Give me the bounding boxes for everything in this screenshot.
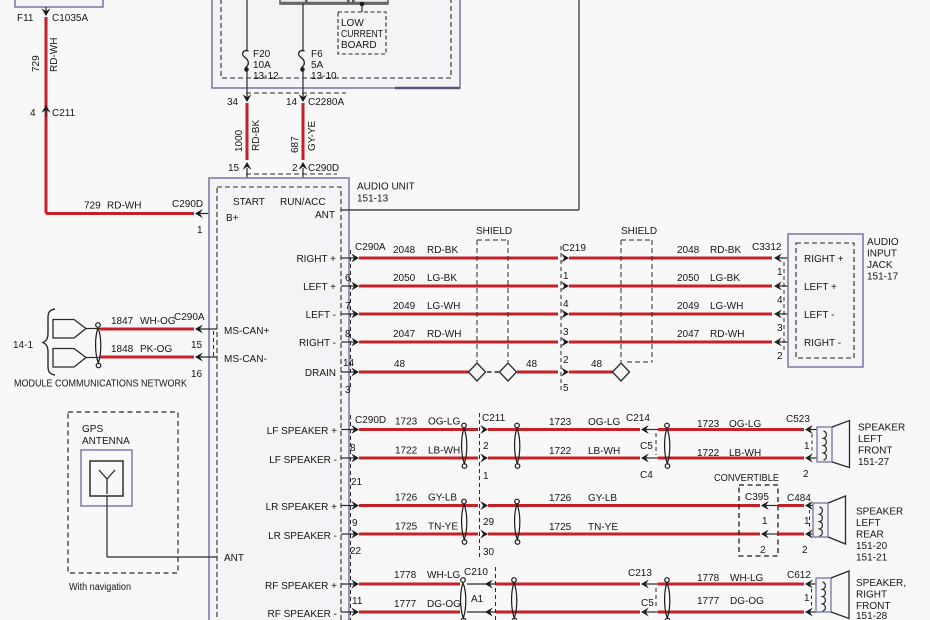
wire 1723 OG-LG (segment 2) [488,417,640,430]
svg-text:GY-YE: GY-YE [307,120,318,151]
wire 2050 LG-BK (right segment) [569,273,772,286]
svg-text:LEFT -: LEFT - [306,310,336,321]
connector C211 pin 2 [480,413,505,452]
wire 2047 RD-WH (right segment) [569,329,772,342]
svg-text:AUDIO UNIT: AUDIO UNIT [357,182,415,193]
connector C3312 dashed line [783,262,785,352]
audio input jack U2 [788,234,899,367]
shield drain junction diamonds (box 1) [469,363,517,381]
svg-text:LEFT: LEFT [856,518,880,529]
svg-text:SPEAKER: SPEAKER [856,507,903,518]
svg-text:LEFT -: LEFT - [804,310,834,321]
svg-text:2: 2 [777,351,783,362]
wire 729 RD-WH (vertical) [31,17,60,214]
svg-text:SHIELD: SHIELD [476,226,512,237]
bus bar (fuse panel) [280,0,388,4]
svg-text:151-20: 151-20 [856,541,888,552]
wire LR+ (C395 to C484) [778,504,804,507]
svg-text:RIGHT: RIGHT [856,590,887,601]
audio unit box [209,178,415,620]
wire 1778 WH-LG (segment 1) [359,570,461,584]
svg-text:34: 34 [227,97,239,108]
connector C211 pin 30 [480,530,494,559]
wire 1778 WH-LG (segment 2) [496,573,764,584]
wire 48 drain (to shield 2) [569,359,613,372]
svg-text:2048: 2048 [677,245,700,256]
svg-text:RD-BK: RD-BK [710,245,741,256]
svg-text:TN-YE: TN-YE [428,522,458,533]
svg-text:1: 1 [804,593,810,604]
svg-text:14: 14 [343,358,355,369]
wire 1726 GY-LB (segment 1) [359,493,478,506]
svg-text:2: 2 [803,469,809,480]
off-page connector (MS-CAN-) [53,349,100,368]
svg-text:2: 2 [563,355,569,366]
connector C1035A pin F11 [17,8,88,24]
connector C219 pins [561,243,586,394]
svg-text:LR SPEAKER -: LR SPEAKER - [268,531,337,542]
svg-text:C612: C612 [787,570,811,581]
svg-text:LG-WH: LG-WH [710,301,743,312]
wire 1848 PK-OG [100,344,194,357]
twisted pair symbol (LF pair, left) [462,423,467,468]
svg-text:RF SPEAKER +: RF SPEAKER + [265,581,337,592]
junction dot on bus bar [360,2,365,7]
wire 2047 RD-WH (left segment) [359,329,558,342]
svg-text:151-21: 151-21 [856,553,888,564]
svg-text:1848: 1848 [111,344,134,355]
svg-text:1000: 1000 [234,129,245,152]
antenna U1 (GPS) [81,450,132,506]
svg-text:C211: C211 [482,413,506,424]
wire ANT (to antenna mast, top right) [341,0,579,210]
twisted pair symbol (MS-CAN) [96,323,101,368]
connector C211 pin 4 [30,105,76,119]
svg-text:C3312: C3312 [752,242,782,253]
svg-text:1726: 1726 [395,493,418,504]
svg-text:1722: 1722 [697,448,720,459]
connector C290D pin 1 (B+) [172,199,217,236]
svg-text:CONVERTIBLE: CONVERTIBLE [714,473,779,484]
svg-text:RD-WH: RD-WH [107,201,141,212]
svg-text:LEFT +: LEFT + [303,282,336,293]
wire LR- (C395 to C484) [778,533,804,536]
svg-text:2050: 2050 [677,273,700,284]
svg-text:1: 1 [197,225,203,236]
speaker right front LS3 [816,571,906,620]
fuse panel box (top, cut off) [212,0,460,88]
connector C290A dashed line (right side audio rows) [350,250,352,388]
wire bus bar to low current board [361,4,363,12]
svg-text:FRONT: FRONT [858,446,892,457]
connector C290A pin 6 LEFT+ [303,273,359,293]
svg-text:4: 4 [777,295,783,306]
svg-text:15: 15 [228,163,240,174]
svg-text:29: 29 [483,517,495,528]
svg-text:C290D: C290D [355,415,386,426]
speaker left front LS1 [817,421,905,469]
svg-text:RUN/ACC: RUN/ACC [280,197,326,208]
connector C290D pin 22 LR SPEAKER - [268,530,361,558]
svg-text:48: 48 [591,359,603,370]
svg-text:1722: 1722 [395,446,418,457]
wire 2049 LG-WH (left segment) [359,301,558,314]
svg-text:C484: C484 [787,493,811,504]
wire 1722 LB-WH (segment 2) [488,446,640,458]
svg-text:6: 6 [345,273,351,284]
connector C214 pin C4 [640,454,658,482]
svg-text:1: 1 [483,471,489,482]
svg-text:14: 14 [286,97,298,108]
svg-text:729: 729 [31,55,42,72]
wire 1722 LB-WH (segment 1) [359,446,478,459]
svg-text:LG-WH: LG-WH [427,301,460,312]
wire 1000 RD-BK [234,103,262,160]
wire 48 drain (mid segment) [517,359,558,372]
svg-text:2: 2 [760,545,766,556]
shield drain junction diamond (box 2) [613,363,630,381]
svg-text:1: 1 [804,441,810,452]
svg-text:LEFT: LEFT [858,434,882,445]
twisted pair symbol (LF pair, mid) [515,423,520,468]
svg-text:11: 11 [352,596,363,607]
svg-text:RIGHT +: RIGHT + [804,254,844,265]
svg-text:1722: 1722 [549,446,572,457]
svg-text:F20: F20 [253,49,271,60]
svg-text:3: 3 [345,385,351,396]
svg-text:1723: 1723 [549,417,572,428]
svg-text:RD-WH: RD-WH [710,329,744,340]
svg-text:WH-LG: WH-LG [730,573,764,584]
shield box 2 [621,226,657,362]
svg-text:DG-OG: DG-OG [730,596,764,607]
svg-text:1: 1 [777,267,783,278]
svg-text:RD-WH: RD-WH [49,38,60,72]
svg-text:MODULE COMMUNICATIONS NETWORK: MODULE COMMUNICATIONS NETWORK [14,379,187,390]
svg-text:LR SPEAKER +: LR SPEAKER + [266,502,338,513]
svg-text:21: 21 [351,477,363,488]
svg-text:8: 8 [345,329,351,340]
svg-text:BOARD: BOARD [341,40,377,51]
wire from power box [45,7,47,12]
wire 1722 LB-WH (segment 3) [658,448,804,459]
svg-text:RIGHT -: RIGHT - [299,338,336,349]
svg-text:C4: C4 [640,470,653,481]
svg-text:C290A: C290A [355,242,386,253]
svg-text:C1035A: C1035A [52,13,88,24]
wire 1847 WH-OG [100,316,194,329]
svg-text:30: 30 [483,547,495,558]
svg-text:1723: 1723 [395,417,418,428]
svg-text:RD-BK: RD-BK [427,245,458,256]
svg-text:2050: 2050 [393,273,416,284]
connector C395 (convertible) [739,485,778,556]
svg-text:2: 2 [292,163,298,174]
svg-text:INPUT: INPUT [867,249,897,260]
svg-text:13-10: 13-10 [311,71,337,82]
svg-text:151-28: 151-28 [856,611,888,620]
connector C484 pin 1 [787,493,813,527]
connector C290D pin 2 (RUN/ACC) [292,162,339,188]
svg-text:C219: C219 [562,243,586,254]
svg-text:3: 3 [777,323,783,334]
svg-text:ANT: ANT [224,553,244,564]
svg-text:LG-BK: LG-BK [427,273,457,284]
svg-text:151-27: 151-27 [858,457,890,468]
GPS antenna module [68,412,178,573]
svg-text:LG-BK: LG-BK [710,273,740,284]
svg-text:687: 687 [290,136,301,153]
svg-text:AUDIO: AUDIO [867,237,899,248]
wire fuse F20 to connector [246,69,248,99]
svg-text:ANT: ANT [315,210,335,221]
wire 2048 RD-BK (right segment) [569,245,772,258]
connector C523 pin 1 [786,414,817,452]
connector C213 dashed line [655,588,657,609]
twisted pair symbol (RF pair, right) [665,578,670,620]
low current board [338,12,386,54]
svg-text:15: 15 [191,340,203,351]
wire into fuse F20 [246,0,248,50]
wire 1723 OG-LG (segment 1) [359,417,478,430]
connector C290D dashed line (speaker rows) [350,415,352,620]
svg-text:LB-WH: LB-WH [729,448,761,459]
audio unit pin labels START / RUN/ACC / B+ / ANT [226,197,335,224]
svg-text:C214: C214 [626,413,650,424]
svg-text:13-12: 13-12 [253,71,279,82]
twisted pair symbol (LF pair, right) [665,423,670,468]
svg-text:1: 1 [762,516,768,527]
svg-text:2049: 2049 [677,301,700,312]
svg-text:B+: B+ [226,213,239,224]
svg-text:C523: C523 [786,414,810,425]
svg-text:14-1: 14-1 [13,340,33,351]
svg-text:LF SPEAKER +: LF SPEAKER + [267,426,337,437]
svg-text:With navigation: With navigation [69,582,131,593]
svg-text:2: 2 [483,441,489,452]
fuse F20 10A [243,49,279,82]
connector C290A pin RIGHT+ [296,242,385,265]
svg-text:1777: 1777 [394,599,417,610]
twisted pair symbol (RF pair, left) [461,578,466,620]
svg-text:1778: 1778 [394,570,417,581]
svg-text:4: 4 [30,108,36,119]
svg-text:RD-WH: RD-WH [427,329,461,340]
svg-text:1778: 1778 [697,573,720,584]
svg-text:48: 48 [394,359,406,370]
svg-text:729: 729 [84,201,101,212]
wire 1778 WH-LG (segment 3) [658,583,804,586]
svg-text:C5: C5 [641,598,654,609]
svg-text:RF SPEAKER -: RF SPEAKER - [268,609,337,620]
svg-text:RD-BK: RD-BK [251,120,262,151]
connector C290D pin 11 RF SPEAKER + [265,580,363,608]
svg-text:RIGHT -: RIGHT - [804,338,841,349]
wire 2048 RD-BK (left segment) [359,245,558,258]
connector C214 dashed line [655,433,657,455]
svg-text:WH-LG: WH-LG [427,570,461,581]
svg-text:1726: 1726 [549,493,572,504]
connector C290A pin 7 LEFT- [306,301,359,321]
connector C2280A pin 34 [227,94,252,108]
wire 1723 OG-LG (segment 3) [658,419,804,430]
off-page connector (MS-CAN+) [53,320,100,339]
connector C211 pin 1 [480,454,489,483]
wire 687 GY-YE [290,103,318,160]
connector C484 pin 2 [802,510,813,556]
svg-text:2: 2 [802,545,808,556]
connector C3312 pins [752,242,796,362]
svg-text:F11: F11 [17,13,34,24]
wire fuse F6 to connector [302,69,304,99]
wire 48 drain (left segment) [359,359,469,372]
svg-text:LB-WH: LB-WH [428,446,460,457]
svg-text:LF SPEAKER -: LF SPEAKER - [269,455,337,466]
connector C219 dashed line [560,246,562,392]
connector C523 pin 2 [803,434,817,480]
svg-text:C2280A: C2280A [308,97,344,108]
connector C612 pin 2 [805,589,816,617]
svg-text:3: 3 [563,327,569,338]
connector C290D pin RF SPEAKER - [268,608,359,620]
svg-text:1725: 1725 [395,522,418,533]
svg-text:1847: 1847 [111,316,134,327]
wire 2049 LG-WH (right segment) [569,301,772,314]
connector C612 pin 1 [787,570,816,604]
power distribution box (top left, cut off) [15,0,103,7]
svg-text:GY-LB: GY-LB [588,493,617,504]
wire 1777 DG-OG (segment 3) [658,611,804,614]
connector C290D dashed line (top of audio unit) [246,173,337,175]
svg-text:48: 48 [526,359,538,370]
twisted pair symbol (LR pair, left) [462,499,467,544]
svg-text:JACK: JACK [867,260,893,271]
svg-text:MS-CAN-: MS-CAN- [224,354,267,365]
connector C290A pin 16 MS-CAN- [191,353,267,381]
svg-text:2047: 2047 [677,329,700,340]
wire 1725 TN-YE (segment 1) [359,522,478,535]
svg-text:C290D: C290D [308,163,339,174]
connector C290D pin LF SPEAKER + [267,415,386,437]
svg-text:4: 4 [563,299,569,310]
svg-text:2049: 2049 [393,301,416,312]
svg-text:CURRENT: CURRENT [341,29,383,40]
svg-text:C210: C210 [464,567,488,578]
svg-text:GY-LB: GY-LB [428,493,457,504]
svg-text:SPEAKER,: SPEAKER, [856,578,906,589]
svg-text:C213: C213 [628,568,652,579]
connector C210 dashed line [495,567,497,620]
connector C214 pin C5 [626,413,658,452]
wire bus bar to fuse F6 [302,4,304,50]
svg-text:8: 8 [350,443,356,454]
connector C213 pin C5 [628,568,658,617]
svg-text:PK-OG: PK-OG [140,344,172,355]
svg-text:C395: C395 [745,492,769,503]
twisted pair symbol (LR pair, mid) [515,499,520,544]
svg-text:1725: 1725 [549,522,572,533]
speaker left rear LS2 [813,496,903,564]
svg-text:REAR: REAR [856,530,884,541]
connector C2280A dashed line [246,92,346,94]
svg-text:10A: 10A [253,60,271,71]
wire 729 RD-WH (horizontal to B+) [46,201,194,214]
svg-text:RIGHT +: RIGHT + [296,254,336,265]
connector C290D pin 9 LR SPEAKER + [266,501,359,529]
wire 1726 GY-LB (segment 2) [488,493,760,506]
svg-text:LB-WH: LB-WH [588,446,620,457]
svg-text:C5: C5 [640,441,653,452]
wire 2050 LG-BK (left segment) [359,273,558,286]
svg-text:C290D: C290D [172,199,203,210]
fuse F6 5A [299,49,337,82]
wire 1777 DG-OG (segment 1) [359,599,461,612]
svg-text:DRAIN: DRAIN [305,368,336,379]
svg-text:1723: 1723 [697,419,720,430]
svg-text:9: 9 [352,518,358,529]
svg-text:WH-OG: WH-OG [140,316,176,327]
connector C211 dashed line (speaker) [479,413,481,557]
connector C290D pin 8 LF SPEAKER - [269,443,362,488]
svg-text:OG-LG: OG-LG [588,417,620,428]
svg-text:1777: 1777 [697,596,720,607]
wire GPS antenna to ANT pin [107,496,244,564]
svg-text:F6: F6 [311,49,323,60]
svg-text:A1: A1 [471,594,484,605]
svg-text:7: 7 [345,301,351,312]
shield box 1 [476,226,512,362]
svg-text:2048: 2048 [393,245,416,256]
connector C211 pin 29 [480,501,494,528]
svg-text:5: 5 [563,383,569,394]
svg-text:SPEAKER: SPEAKER [858,423,905,434]
connector C2280A pin 14 [286,94,344,108]
svg-text:ANTENNA: ANTENNA [82,436,130,447]
svg-text:151-13: 151-13 [357,194,389,205]
brace 14-1 [13,309,55,375]
svg-text:START: START [233,197,265,208]
svg-text:22: 22 [350,546,362,557]
svg-text:C290A: C290A [174,312,205,323]
connector C290A pin 8 RIGHT- [299,329,359,349]
svg-text:GPS: GPS [82,424,103,435]
svg-text:DG-OG: DG-OG [427,599,461,610]
connector C210 pin A1 [464,567,495,617]
connector C290A pin 14 DRAIN [305,358,359,396]
svg-text:MS-CAN+: MS-CAN+ [224,326,269,337]
connector C290A dashed line (left, MS-CAN) [213,331,215,356]
connector C290D pin 15 (START) [228,162,252,188]
svg-text:OG-LG: OG-LG [428,417,460,428]
wire 1777 DG-OG (segment 2) [496,596,764,612]
svg-text:C211: C211 [52,108,76,119]
svg-text:LOW: LOW [341,18,364,29]
svg-text:TN-YE: TN-YE [588,522,618,533]
svg-text:1: 1 [563,271,569,282]
svg-text:2047: 2047 [393,329,416,340]
twisted pair symbol (RF pair, mid) [512,578,517,620]
svg-text:16: 16 [191,369,203,380]
svg-text:OG-LG: OG-LG [729,419,761,430]
wire 1725 TN-YE (segment 2) [488,522,760,534]
svg-text:5A: 5A [311,60,324,71]
svg-text:151-17: 151-17 [867,272,899,283]
svg-text:LEFT +: LEFT + [804,282,837,293]
svg-text:SHIELD: SHIELD [621,226,657,237]
connector C290A pin 15 MS-CAN+ [174,312,269,351]
